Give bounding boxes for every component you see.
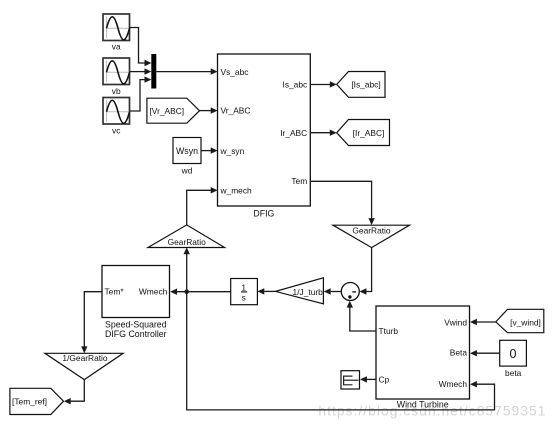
wire DFIG Is_abc to [Is_abc] xyxy=(310,81,336,87)
wire mux to DFIG Vs_abc xyxy=(156,68,217,74)
Goto block [Ir_ABC] xyxy=(337,120,390,146)
wire junction up to gain GearRatio (up) xyxy=(184,247,190,291)
svg-text:va: va xyxy=(112,42,121,52)
svg-text:1/GearRatio: 1/GearRatio xyxy=(62,353,107,363)
svg-text:w_syn: w_syn xyxy=(220,146,245,156)
svg-text:Wsyn: Wsyn xyxy=(176,146,198,156)
svg-text:Vs_abc: Vs_abc xyxy=(221,67,249,77)
wire vc to mux xyxy=(130,76,152,111)
svg-text:Wind Turbine: Wind Turbine xyxy=(397,399,449,409)
mux xyxy=(151,54,156,89)
svg-text:Tem*: Tem* xyxy=(105,286,125,296)
wire [v_wind] to Wind Turbine Vwind xyxy=(470,319,496,325)
From block [v_wind] xyxy=(496,309,544,332)
sine wave source vb xyxy=(103,58,130,96)
svg-text:wd: wd xyxy=(181,166,193,176)
wire integrator 1/s to controller Wmech xyxy=(170,289,231,295)
sine wave source va xyxy=(103,14,130,52)
wire va to mux xyxy=(130,28,152,67)
svg-text:GearRatio: GearRatio xyxy=(352,226,391,236)
svg-text:vc: vc xyxy=(112,126,120,136)
svg-text:Wmech: Wmech xyxy=(439,379,468,389)
gain GearRatio (down) xyxy=(333,225,410,247)
svg-text:Wmech: Wmech xyxy=(139,286,168,296)
svg-text:1/J_turb: 1/J_turb xyxy=(293,287,324,297)
svg-text:0: 0 xyxy=(510,347,517,361)
constant Wsyn xyxy=(173,138,201,176)
svg-text:DIFG Controller: DIFG Controller xyxy=(105,329,167,339)
svg-text:Speed-Squared: Speed-Squared xyxy=(105,320,167,330)
gain 1/J_turb xyxy=(276,278,324,304)
gain GearRatio (up) xyxy=(148,225,225,248)
wire gain 1/GearRatio to [Tem_ref] xyxy=(64,380,85,405)
svg-text:GearRatio: GearRatio xyxy=(168,237,207,247)
wire DFIG Ir_ABC to [Ir_ABC] xyxy=(310,130,336,136)
Goto block [Is_abc] xyxy=(337,72,385,98)
subsystem DFIG xyxy=(218,54,311,219)
svg-text:[Is_abc]: [Is_abc] xyxy=(351,80,380,90)
wire gain GearRatio (up) to DFIG w_mech xyxy=(187,187,218,225)
wire gain GearRatio to sum minus input xyxy=(360,248,372,295)
svg-text:w_mech: w_mech xyxy=(220,185,253,195)
svg-text:Vr_ABC: Vr_ABC xyxy=(221,106,251,116)
wire junction down to Wind Turbine Wmech xyxy=(187,292,495,410)
svg-text:vb: vb xyxy=(112,86,121,96)
svg-text:1: 1 xyxy=(241,283,246,293)
svg-text:Cp: Cp xyxy=(379,374,390,384)
svg-text:[Ir_ABC]: [Ir_ABC] xyxy=(353,128,385,138)
sum junction xyxy=(341,283,359,301)
subsystem Speed-Squared DIFG Controller xyxy=(102,266,170,340)
sine wave source vc xyxy=(103,98,130,136)
wire Wind Turbine Tturb to sum plus input xyxy=(347,301,376,331)
svg-text:beta: beta xyxy=(505,368,522,378)
svg-text:Is_abc: Is_abc xyxy=(283,80,308,90)
svg-text:s: s xyxy=(242,292,246,302)
scope Cp display xyxy=(341,371,360,389)
svg-text:[v_wind]: [v_wind] xyxy=(510,318,541,328)
subsystem Wind Turbine xyxy=(376,306,470,409)
wire gain 1/J_turb to integrator 1/s xyxy=(257,288,275,294)
wire vb to mux xyxy=(130,68,152,74)
svg-text:Tturb: Tturb xyxy=(379,326,399,336)
svg-text:Ir_ABC: Ir_ABC xyxy=(280,128,307,138)
svg-text:Vwind: Vwind xyxy=(444,318,467,328)
svg-text:[Tem_ref]: [Tem_ref] xyxy=(12,397,47,407)
svg-text:[Vr_ABC]: [Vr_ABC] xyxy=(149,106,184,116)
Goto block [Tem_ref] xyxy=(10,388,64,414)
svg-text:DFIG: DFIG xyxy=(253,209,274,219)
svg-text:Tem: Tem xyxy=(291,176,307,186)
node Wmech junction xyxy=(184,289,189,294)
wire Wind Turbine Cp to scope xyxy=(360,376,376,382)
gain 1/GearRatio xyxy=(45,353,123,380)
wire controller Tem* to gain 1/GearRatio xyxy=(81,292,102,354)
constant 0 beta xyxy=(500,340,527,378)
wire Wsyn to DFIG w_syn xyxy=(201,147,218,153)
From block [Vr_ABC] xyxy=(147,98,200,123)
svg-text:Beta: Beta xyxy=(450,348,468,358)
wire DFIG Tem to gain GearRatio xyxy=(310,181,375,225)
wire constant 0 to Wind Turbine Beta xyxy=(470,350,500,356)
wire [Vr_ABC] to DFIG Vr_ABC xyxy=(200,107,218,113)
integrator 1/s xyxy=(231,279,258,305)
wire sum to gain 1/J_turb xyxy=(324,288,341,294)
